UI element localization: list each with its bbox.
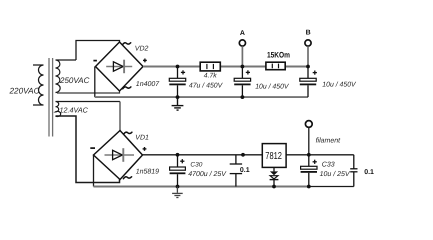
capacitor 10u/450V (at node B) xyxy=(300,67,357,98)
ground (lower) xyxy=(172,187,183,198)
svg-text:4700u / 25V: 4700u / 25V xyxy=(188,170,227,178)
svg-text:10u / 25V: 10u / 25V xyxy=(320,170,351,178)
svg-text:250VAC: 250VAC xyxy=(59,76,90,85)
capacitor 0.1 (at 7812 input) xyxy=(230,155,242,187)
svg-text:1n4007: 1n4007 xyxy=(136,81,160,88)
node A terminal xyxy=(239,30,245,67)
diode inside VD1 xyxy=(105,154,135,156)
junction dot xyxy=(306,65,310,69)
junction dot xyxy=(272,185,276,189)
capacitor 10u/450V (at node A) xyxy=(234,67,290,98)
svg-text:15KOm: 15KOm xyxy=(267,51,290,60)
svg-text:220VAC: 220VAC xyxy=(9,87,40,96)
svg-text:C30: C30 xyxy=(190,161,202,168)
ground xyxy=(172,97,184,110)
svg-text:47u / 450V: 47u / 450V xyxy=(189,83,224,90)
junction dot xyxy=(176,185,180,189)
resistor 4.7k xyxy=(200,62,220,79)
wire: 250VAC bottom lead to VD2 AC bottom xyxy=(57,91,120,93)
capacitor C30 4700u/25V xyxy=(170,155,228,187)
wire: top ground rail xyxy=(95,96,308,98)
junction dot xyxy=(241,153,245,157)
resistor 15KOm xyxy=(266,51,290,70)
capacitor 47u/450V xyxy=(169,67,223,98)
svg-text:4.7k: 4.7k xyxy=(204,72,217,79)
node filament terminal xyxy=(305,121,341,155)
svg-text:12.4VAC: 12.4VAC xyxy=(60,105,89,114)
wire: 12.4VAC top lead down to VD1 AC top xyxy=(119,102,121,131)
bridge rectifier VD2 diamond xyxy=(96,42,144,91)
transformer secondary winding 12.4VAC xyxy=(56,101,121,116)
wire: 12.4VAC bottom lead down and over to VD1 AC bottom xyxy=(56,116,120,183)
wire: top HV rail xyxy=(143,65,308,67)
junction dot xyxy=(176,65,180,69)
transformer T1 core xyxy=(49,58,53,137)
capacitor 0.1 (output, far right) xyxy=(350,155,357,187)
node B terminal xyxy=(305,30,311,67)
svg-text:0.1: 0.1 xyxy=(240,167,250,174)
svg-text:filament: filament xyxy=(316,137,342,145)
junction dot xyxy=(307,153,311,157)
junction dot xyxy=(307,185,311,189)
svg-text:7812: 7812 xyxy=(265,151,282,162)
junction dot xyxy=(176,95,180,99)
junction dot xyxy=(176,153,180,157)
svg-text:C33: C33 xyxy=(322,161,335,168)
transformer primary winding 220VAC xyxy=(33,65,44,105)
svg-text:1n5819: 1n5819 xyxy=(136,168,159,175)
wire: lower +12V rail xyxy=(143,154,354,156)
svg-text:10u / 450V: 10u / 450V xyxy=(322,81,357,88)
svg-text:A: A xyxy=(240,30,245,37)
svg-text:0.1: 0.1 xyxy=(364,169,374,176)
VD2 labels xyxy=(123,43,131,45)
wire: VD1 minus stub down to lower ground rail xyxy=(93,155,95,187)
svg-text:10u / 450V: 10u / 450V xyxy=(255,83,290,90)
VD1 labels xyxy=(124,132,132,134)
junction dot xyxy=(241,65,245,69)
wire: VD2 minus stub down to ground rail xyxy=(94,67,96,98)
svg-text:VD1: VD1 xyxy=(135,135,149,142)
svg-text:B: B xyxy=(306,30,311,37)
junction dot xyxy=(241,95,245,99)
diodes D1 D2 under 7812 ground pin xyxy=(270,167,279,186)
wire: lower ground rail xyxy=(94,185,309,187)
wire: 250VAC top lead up and over to VD2 AC top xyxy=(76,41,120,61)
bridge rectifier VD1 diamond xyxy=(94,131,143,180)
regulator U1 7812 xyxy=(262,144,286,168)
capacitor C33 10u/25V xyxy=(301,155,351,187)
diode inside VD2 xyxy=(106,66,132,68)
transformer secondary winding 250VAC xyxy=(56,60,77,93)
svg-text:VD2: VD2 xyxy=(135,45,149,52)
